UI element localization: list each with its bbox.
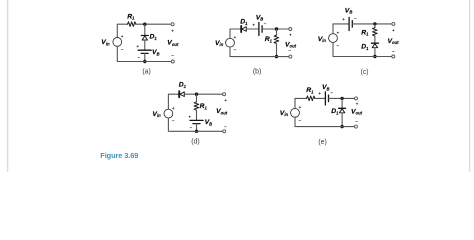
wire battery to terminal (e) [329,97,355,99]
svg-text:−: − [288,49,291,54]
terminal Vout top (d) [223,93,226,96]
wire top left (c) [333,24,349,34]
wire bottom left (a) [117,46,171,61]
svg-text:−: − [224,126,227,131]
wire middle branch upper (a) [144,24,146,35]
source Vin (e) [291,106,302,124]
wire junction to diode (e) [341,98,343,108]
svg-text:+: + [171,30,174,35]
node junction bottom (d) [195,130,198,133]
svg-text:(d): (d) [191,139,199,146]
source Vin (c) [329,31,340,49]
svg-text:−: − [392,50,395,55]
wire battery to bottom (d) [196,124,198,132]
svg-text:−: − [121,48,124,53]
svg-text:+: + [188,115,191,120]
node junction top (e) [340,97,343,100]
wire resistor to bottom (b) [276,44,278,57]
diode D1 (d) [179,91,184,97]
battery VB (a) [138,50,151,53]
wire junction to resistor (c) [374,24,376,28]
svg-text:−: − [354,17,357,22]
wire bottom (e) [295,117,355,126]
node junction top (d) [195,93,198,96]
svg-text:+: + [289,34,292,39]
svg-text:−: − [234,49,237,54]
wire top right (a) [136,23,172,25]
terminal Vout bottom (d) [223,130,226,133]
resistor R1 (d) [194,102,199,110]
diode D1 (b) [241,26,246,32]
diode D1 (c) [371,43,378,48]
wire diode to bottom (e) [341,113,343,127]
svg-text:−: − [264,23,267,28]
wire battery to terminal (c) [352,23,392,25]
svg-text:+: + [392,29,395,34]
resistor R1 (a) [128,22,137,27]
wire top left (e) [295,98,307,108]
node junction top (c) [373,22,376,25]
wire bottom (c) [333,43,392,57]
node junction bottom (c) [373,55,376,58]
wire junction to resistor (b) [276,29,278,35]
wire diode to battery (b) [246,28,258,30]
node junction bottom (a) [143,60,146,63]
svg-text:+: + [337,31,340,36]
wire resistor to battery (e) [315,97,325,99]
svg-text:+: + [136,45,139,50]
svg-text:Figure 3.69: Figure 3.69 [100,151,138,160]
svg-text:−: − [330,92,333,97]
svg-text:(c): (c) [361,69,369,76]
resistor R1 (c) [373,28,378,36]
node junction top (a) [143,23,146,26]
svg-text:+: + [318,92,321,97]
battery VB (c) [349,17,352,30]
battery VB (e) [325,92,328,105]
source Vin (b) [226,36,237,54]
svg-text:+: + [121,35,124,40]
terminal Vout bottom (b) [289,55,292,58]
source Vin (d) [164,107,175,125]
svg-text:+: + [252,23,255,28]
svg-text:−: − [172,120,175,125]
svg-text:+: + [342,18,345,23]
svg-text:−: − [171,54,174,59]
wire bottom (b) [230,47,289,57]
wire battery to bottom (a) [144,53,146,61]
svg-text:(a): (a) [142,68,150,75]
terminal Vout top (b) [289,28,292,31]
wire diode to bottom (c) [374,48,376,57]
terminal Vout bottom (a) [171,60,174,63]
svg-text:−: − [299,119,302,124]
svg-text:+: + [299,106,302,111]
diode D1 (e) [339,108,346,113]
svg-text:(b): (b) [253,68,261,75]
wire battery to terminal (b) [262,28,289,30]
svg-text:−: − [355,120,358,125]
wire bottom (d) [168,118,222,131]
wire junction to resistor (d) [196,94,198,102]
wire resistor to diode (c) [374,36,376,43]
wire diode to terminal (d) [184,93,222,95]
svg-text:+: + [224,99,227,104]
node junction bottom (b) [275,55,278,58]
terminal Vout bottom (c) [392,55,395,58]
terminal Vout top (a) [171,23,174,26]
terminal Vout top (c) [392,22,395,25]
svg-text:−: − [138,56,141,61]
terminal Vout bottom (e) [354,125,357,128]
battery VB (b) [259,22,262,35]
svg-text:−: − [337,44,340,49]
battery VB (d) [190,120,203,123]
wire diode to battery (a) [144,40,146,50]
node junction top (b) [275,27,278,30]
svg-text:(e): (e) [318,139,326,146]
terminal Vout top (e) [355,97,358,100]
svg-text:+: + [356,103,359,108]
diode D1 (a) [141,36,148,41]
resistor R1 (e) [307,96,316,101]
svg-text:+: + [172,107,175,112]
node junction bottom (e) [340,125,343,128]
wire top left (a) [117,24,127,37]
wire top left (d) [168,94,178,109]
resistor R1 (b) [274,35,279,43]
wire resistor to battery (d) [196,110,198,120]
svg-text:+: + [234,36,237,41]
source Vin (a) [113,35,124,53]
wire top left (b) [230,29,241,38]
